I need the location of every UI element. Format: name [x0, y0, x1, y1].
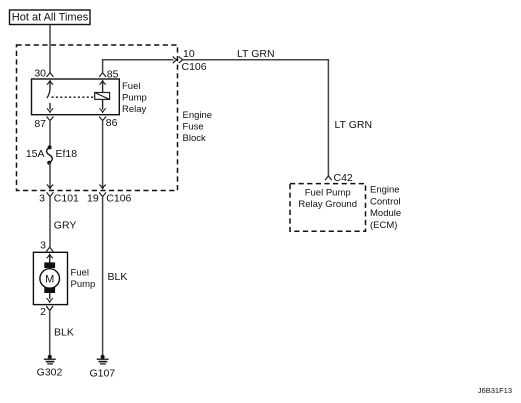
svg-text:30: 30: [34, 68, 46, 80]
svg-text:86: 86: [106, 117, 118, 129]
svg-text:Fuel Pump: Fuel Pump: [305, 188, 351, 199]
svg-text:Ef18: Ef18: [56, 148, 78, 160]
wire: relay pin 87 to fuse: [49, 121, 51, 148]
svg-text:C101: C101: [54, 193, 79, 205]
wire: C106 pin 10 to ECM C42, LT GRN: [183, 60, 329, 176]
svg-text:Fuse: Fuse: [183, 121, 204, 132]
svg-text:Module: Module: [370, 208, 401, 219]
engine fuse block boundary (dashed): [17, 45, 178, 191]
svg-text:3: 3: [39, 193, 45, 205]
connector chevron fuel pump pin 2: [46, 306, 53, 310]
connector fork C101: [47, 192, 54, 196]
svg-text:C106: C106: [106, 193, 131, 205]
relay box: [32, 79, 120, 115]
ECM dashed box: [290, 184, 366, 232]
svg-text:Pump: Pump: [71, 279, 96, 290]
connector fork C106 pin 19: [99, 192, 106, 196]
label Engine Fuse Block: [183, 110, 213, 144]
svg-text:M: M: [45, 273, 54, 285]
svg-text:G107: G107: [89, 367, 115, 379]
wire: C106 pin 19 to G107, BLK: [102, 197, 104, 356]
connector fork C106 pin 10: [179, 57, 183, 63]
svg-text:LT GRN: LT GRN: [335, 119, 373, 131]
svg-text:19: 19: [87, 193, 99, 205]
connector chevron pin 85: [99, 73, 106, 77]
svg-text:Block: Block: [183, 133, 206, 144]
svg-text:3: 3: [40, 240, 46, 252]
svg-text:C42: C42: [334, 172, 353, 184]
wire: fuse to C101 with exit arrow: [47, 163, 53, 189]
connector chevron pin 87: [47, 116, 54, 120]
ground G107: [89, 355, 115, 380]
wire: fuel pump pin 2 to G302, BLK: [49, 310, 51, 355]
label Fuel Pump Relay: [122, 81, 147, 115]
svg-text:85: 85: [107, 69, 119, 81]
power source label "Hot at All Times": [10, 10, 91, 25]
svg-text:87: 87: [34, 118, 46, 130]
connector chevron pin 30: [47, 73, 54, 77]
fuel pump box: [33, 252, 67, 304]
wire: C101 to fuel pump pin 3, GRY: [49, 197, 51, 248]
label Fuel Pump Relay Ground: [298, 188, 357, 210]
svg-text:C106: C106: [182, 61, 207, 73]
svg-text:Fuel: Fuel: [122, 81, 140, 92]
svg-text:(ECM): (ECM): [370, 220, 397, 231]
svg-text:Engine: Engine: [370, 184, 400, 195]
svg-text:J6B31F13: J6B31F13: [478, 386, 512, 395]
connector chevron C42: [325, 176, 332, 180]
svg-text:BLK: BLK: [54, 327, 74, 339]
svg-text:BLK: BLK: [108, 271, 128, 283]
relay coil (pins 85-86): [95, 81, 110, 113]
svg-text:Hot at All Times: Hot at All Times: [12, 12, 89, 24]
svg-text:15A: 15A: [26, 148, 45, 160]
svg-text:Fuel: Fuel: [71, 268, 89, 279]
svg-text:Engine: Engine: [183, 110, 213, 121]
svg-text:Pump: Pump: [122, 92, 147, 103]
connector chevron fuel pump pin 3: [46, 247, 53, 251]
wire: Hot at All Times to relay pin 30: [49, 25, 51, 73]
wire: relay pin 86 to C106 pin 19 with exit arrow: [99, 121, 105, 189]
svg-text:10: 10: [183, 48, 195, 60]
svg-text:Control: Control: [370, 196, 401, 207]
label Fuel Pump: [71, 268, 96, 290]
svg-text:G302: G302: [37, 366, 63, 378]
ground G302: [37, 355, 63, 379]
svg-text:Relay: Relay: [122, 104, 147, 115]
svg-text:2: 2: [40, 306, 46, 318]
label Engine Control Module (ECM): [370, 184, 401, 231]
svg-text:GRY: GRY: [54, 220, 77, 232]
wire: relay pin 85 up and right to fuse block edge, exit arrow: [103, 56, 178, 72]
svg-text:LT GRN: LT GRN: [237, 48, 275, 60]
fuel pump motor M: [40, 254, 60, 302]
relay switch contact (pin 30 side): [47, 81, 53, 113]
svg-text:Relay Ground: Relay Ground: [298, 199, 357, 210]
fuse Ef18 15A: [47, 145, 53, 164]
connector chevron pin 86: [99, 116, 106, 120]
relay dashed actuating link: [52, 96, 95, 98]
